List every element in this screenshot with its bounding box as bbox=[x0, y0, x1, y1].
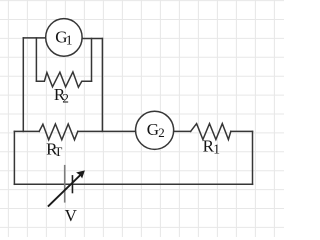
battery V long plate bbox=[64, 165, 66, 203]
svg-text:1: 1 bbox=[213, 142, 220, 157]
wire right inner vertical (R2 up to top wire) bbox=[91, 39, 93, 82]
battery V short plate bbox=[71, 175, 73, 193]
wire RT to G2 bbox=[78, 130, 136, 132]
resistor R2 bbox=[36, 72, 91, 87]
wire R1 to right corner bbox=[231, 130, 253, 132]
wire top-right (G1 right terminal to node B) bbox=[82, 38, 102, 40]
wire bottom bbox=[14, 183, 252, 185]
svg-text:G: G bbox=[147, 120, 159, 139]
resistor RT bbox=[39, 124, 78, 140]
wire right vertical bbox=[252, 131, 254, 184]
svg-text:T: T bbox=[54, 144, 62, 159]
wire left outer vertical (node A down to RT row) bbox=[22, 38, 24, 131]
label R2 bbox=[54, 85, 69, 106]
wire G2 to R1 bbox=[174, 130, 191, 132]
galvanometer G1 bbox=[46, 19, 82, 57]
svg-text:2: 2 bbox=[158, 125, 165, 140]
svg-text:V: V bbox=[65, 206, 78, 225]
svg-text:1: 1 bbox=[66, 32, 73, 47]
wire right outer vertical (node B down to RT row) bbox=[101, 39, 103, 132]
svg-text:2: 2 bbox=[62, 91, 69, 106]
label R1 bbox=[203, 136, 220, 156]
wire top-left (node A to G1 left terminal) bbox=[23, 37, 46, 39]
label RT bbox=[46, 139, 62, 159]
wire left lower vertical bbox=[13, 131, 15, 184]
wire left inner vertical (top wire down to R2) bbox=[35, 38, 37, 81]
wire RT row left bbox=[14, 130, 39, 132]
resistor R1 bbox=[191, 124, 231, 140]
galvanometer G2 bbox=[136, 111, 174, 149]
arrow (variable source) bbox=[48, 170, 85, 206]
